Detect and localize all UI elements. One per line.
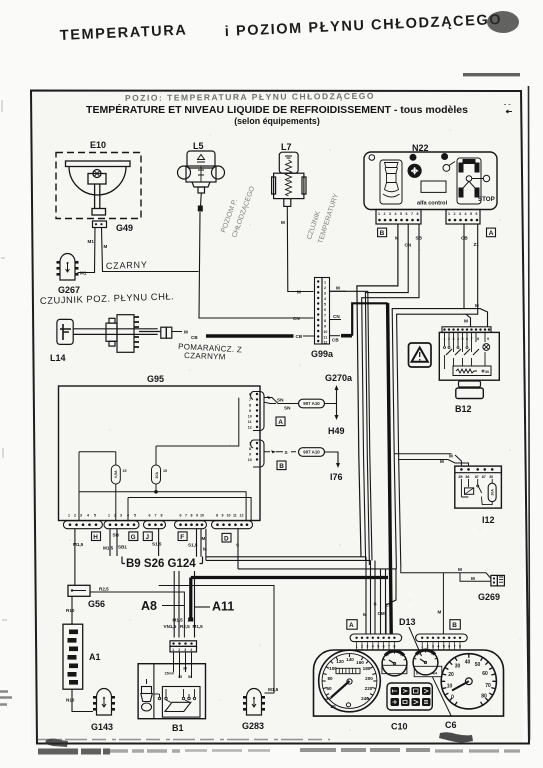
pedestal bbox=[459, 381, 481, 387]
svg-text:140: 140 bbox=[346, 657, 354, 662]
svg-text:4: 4 bbox=[324, 297, 326, 301]
svg-text:C10: C10 bbox=[391, 722, 408, 732]
B1 relay bbox=[138, 664, 205, 719]
svg-text:8: 8 bbox=[324, 319, 326, 323]
svg-text:4: 4 bbox=[190, 648, 192, 652]
svg-text:M: M bbox=[281, 220, 285, 225]
H: M1,5 to G56 bbox=[74, 529, 76, 586]
svg-text:5: 5 bbox=[134, 514, 136, 518]
cluster outer box bbox=[314, 650, 504, 716]
svg-text:9: 9 bbox=[249, 409, 251, 413]
svg-text:85: 85 bbox=[459, 475, 463, 479]
svg-text:3: 3 bbox=[184, 648, 186, 652]
svg-text:G: G bbox=[131, 534, 136, 541]
svg-text:15: 15 bbox=[123, 469, 127, 473]
svg-text:7: 7 bbox=[411, 212, 413, 216]
svg-text:M1,5: M1,5 bbox=[193, 624, 204, 629]
svg-text:9: 9 bbox=[196, 514, 198, 518]
svg-text:8: 8 bbox=[477, 337, 479, 341]
N10 wire A1 to G143 bbox=[72, 689, 93, 711]
svg-text:6: 6 bbox=[180, 514, 182, 518]
svg-text:G99a: G99a bbox=[311, 349, 334, 359]
svg-text:5: 5 bbox=[470, 212, 472, 216]
inner contact box bbox=[162, 687, 200, 718]
svg-text:M1,5: M1,5 bbox=[73, 542, 84, 547]
svg-text:M: M bbox=[184, 330, 188, 335]
I12 feed wires bbox=[394, 454, 461, 466]
svg-text:80: 80 bbox=[481, 694, 487, 700]
svg-text:2: 2 bbox=[384, 212, 386, 216]
screw circle top-left bbox=[369, 155, 375, 161]
boxed A label bbox=[487, 228, 496, 237]
svg-text:10: 10 bbox=[248, 458, 252, 462]
black dots bbox=[410, 154, 416, 160]
svg-text:0,5A: 0,5A bbox=[114, 470, 118, 478]
svg-text:4: 4 bbox=[87, 514, 89, 518]
svg-text:S: S bbox=[374, 602, 377, 607]
svg-text:15: 15 bbox=[163, 469, 167, 473]
svg-text:M: M bbox=[458, 567, 462, 572]
svg-text:M1,5: M1,5 bbox=[268, 687, 279, 692]
svg-text:A11: A11 bbox=[212, 600, 234, 614]
E10 dashed box bbox=[56, 153, 141, 219]
svg-text:0: 0 bbox=[416, 672, 418, 676]
button panel bbox=[387, 683, 432, 710]
svg-text:CB: CB bbox=[191, 335, 198, 340]
svg-text:L7: L7 bbox=[281, 142, 292, 152]
svg-text:7: 7 bbox=[249, 398, 251, 402]
scan edge artifact line right bbox=[529, 86, 530, 740]
svg-text:N10: N10 bbox=[66, 698, 75, 703]
svg-text:2: 2 bbox=[454, 212, 456, 216]
boxed B label bbox=[378, 228, 387, 237]
fuse 907A10 lower bbox=[299, 448, 325, 457]
svg-text:11: 11 bbox=[233, 514, 237, 518]
connector H bbox=[68, 514, 96, 518]
svg-text:30: 30 bbox=[489, 475, 493, 479]
svg-text:CN: CN bbox=[293, 316, 300, 321]
small arrow mark inside frame top right bbox=[506, 110, 512, 113]
svg-text:3: 3 bbox=[324, 292, 326, 296]
wire stubs from L14 bbox=[172, 331, 182, 333]
svg-text:M: M bbox=[336, 286, 340, 291]
contacts bbox=[444, 347, 446, 349]
svg-text:6: 6 bbox=[406, 212, 408, 216]
svg-text:8: 8 bbox=[191, 514, 193, 518]
svg-text:(selon équipements): (selon équipements) bbox=[234, 116, 320, 126]
E10 gauge symbol bbox=[66, 161, 131, 215]
S wire from G95 B pins to fuse bbox=[264, 451, 297, 453]
svg-text:SN: SN bbox=[277, 398, 284, 403]
svg-text:70: 70 bbox=[485, 683, 491, 689]
wires junction to B1 bbox=[174, 652, 192, 678]
pencil dash above frame bbox=[463, 73, 520, 76]
N22 connector B bbox=[376, 210, 421, 225]
M wire N22-B: left at 285.9 then long vertical bbox=[357, 224, 398, 557]
svg-text:SB: SB bbox=[113, 533, 120, 538]
wire M (czarny) from G49 to CN node bbox=[102, 228, 199, 272]
svg-text:B: B bbox=[380, 230, 385, 237]
svg-text:15mV: 15mV bbox=[165, 672, 175, 676]
svg-text:2: 2 bbox=[114, 514, 116, 518]
SN wires from G95 pin to fuse bbox=[264, 398, 300, 404]
svg-text:B: B bbox=[452, 622, 457, 629]
svg-text:10A: 10A bbox=[155, 472, 159, 479]
svg-text:D: D bbox=[224, 535, 229, 542]
thick 30-feed horizontal bbox=[191, 576, 388, 579]
svg-text:8: 8 bbox=[249, 447, 251, 451]
G56 connector bbox=[68, 585, 90, 596]
svg-text:B12: B12 bbox=[455, 404, 472, 414]
R10 wire G56 to A1 bbox=[71, 596, 73, 624]
CB branch to B12 bbox=[464, 309, 488, 327]
svg-text:160: 160 bbox=[356, 660, 364, 665]
svg-text:9: 9 bbox=[487, 337, 489, 341]
svg-text:1: 1 bbox=[448, 212, 450, 216]
svg-text:5: 5 bbox=[324, 303, 326, 307]
speedo numbers bbox=[325, 657, 373, 709]
svg-text:1: 1 bbox=[324, 281, 326, 285]
svg-text:L5: L5 bbox=[193, 141, 204, 151]
svg-text:11: 11 bbox=[323, 336, 327, 340]
small gauge left (temp) bbox=[382, 651, 407, 676]
svg-text:I12: I12 bbox=[482, 515, 495, 525]
svg-text:1: 1 bbox=[108, 514, 110, 518]
G269 feed wires bbox=[401, 567, 491, 579]
svg-text:R2,5: R2,5 bbox=[99, 587, 109, 592]
gauge warning circle bbox=[408, 164, 421, 177]
indicator circle + diagonal bbox=[443, 165, 450, 172]
svg-text:1: 1 bbox=[172, 648, 174, 652]
svg-text:M: M bbox=[297, 290, 301, 295]
svg-text:0: 0 bbox=[451, 695, 454, 701]
svg-text:15: 15 bbox=[178, 675, 182, 679]
svg-text:8: 8 bbox=[216, 514, 218, 518]
B9 S26 G124 labels bbox=[122, 557, 203, 564]
pencil scribble near L5 bbox=[220, 185, 256, 239]
svg-text:87: 87 bbox=[475, 475, 479, 479]
pin numbers bbox=[444, 337, 490, 341]
svg-text:50: 50 bbox=[188, 675, 192, 679]
svg-text:I76: I76 bbox=[330, 472, 343, 482]
svg-text:9: 9 bbox=[324, 325, 326, 329]
wire down from G269 junction to cluster B bbox=[442, 573, 444, 634]
wires down to junction bbox=[174, 571, 194, 638]
speedometer bbox=[319, 650, 381, 712]
svg-text:alfa control: alfa control bbox=[417, 201, 448, 207]
handwritten page title bbox=[59, 12, 502, 44]
svg-text:D13: D13 bbox=[399, 617, 416, 627]
svg-text:1: 1 bbox=[68, 514, 70, 518]
svg-text:R2,5: R2,5 bbox=[180, 624, 190, 629]
svg-text:A: A bbox=[278, 419, 283, 426]
svg-text:40: 40 bbox=[465, 660, 471, 666]
svg-text:1: 1 bbox=[378, 212, 380, 216]
svg-text:20: 20 bbox=[330, 704, 336, 709]
J: S1,5 drop bbox=[158, 529, 160, 556]
svg-text:CN: CN bbox=[333, 314, 340, 319]
svg-text:G95: G95 bbox=[147, 374, 164, 384]
connector G bbox=[108, 514, 136, 518]
svg-text:220: 220 bbox=[365, 686, 373, 691]
svg-text:12: 12 bbox=[248, 426, 252, 430]
connector F bbox=[180, 514, 205, 518]
lamp symbol bbox=[483, 344, 490, 351]
svg-text:A: A bbox=[489, 230, 494, 237]
svg-text:8: 8 bbox=[417, 212, 419, 216]
svg-text:A: A bbox=[349, 622, 354, 629]
svg-text:30: 30 bbox=[485, 370, 489, 374]
svg-text:10: 10 bbox=[323, 330, 327, 334]
svg-text:40: 40 bbox=[325, 696, 331, 701]
D wires: S bbox=[237, 529, 239, 569]
relay armature parallelogram bbox=[165, 702, 191, 711]
svg-text:9: 9 bbox=[249, 453, 251, 457]
wire M1 from G49 to G267 bbox=[78, 228, 96, 273]
bottom inner box with resistor bbox=[453, 366, 491, 376]
svg-text:120: 120 bbox=[336, 659, 344, 664]
connector D bbox=[216, 514, 244, 518]
G99a right side stubs bbox=[330, 290, 347, 292]
Z1 wire N22-A down-left-down bbox=[397, 224, 478, 567]
left margin noise bbox=[1, 100, 7, 620]
svg-text:7: 7 bbox=[155, 514, 157, 518]
svg-text:7: 7 bbox=[324, 314, 326, 318]
svg-text:Z1: Z1 bbox=[474, 242, 480, 247]
svg-text:12: 12 bbox=[240, 514, 244, 518]
svg-text:M: M bbox=[104, 244, 108, 249]
svg-text:CN: CN bbox=[386, 603, 393, 608]
svg-text:S: S bbox=[236, 543, 239, 548]
svg-text:200: 200 bbox=[365, 676, 373, 681]
svg-text:E10: E10 bbox=[90, 140, 106, 150]
svg-text:G143: G143 bbox=[91, 722, 113, 732]
svg-text:2: 2 bbox=[74, 514, 76, 518]
faint scan tone bbox=[31, 90, 523, 744]
svg-text:5: 5 bbox=[400, 212, 402, 216]
horn symbol bbox=[142, 687, 152, 694]
svg-text:3: 3 bbox=[80, 514, 82, 518]
svg-text:SN: SN bbox=[284, 406, 291, 411]
svg-text:4/4: 4/4 bbox=[432, 672, 437, 676]
wire from L5 down (CN net) bbox=[199, 193, 314, 318]
wire from L7 down to G99a M bbox=[287, 206, 313, 291]
svg-text:60: 60 bbox=[482, 671, 488, 677]
G143 bulb holder bbox=[93, 689, 115, 716]
svg-text:2: 2 bbox=[178, 648, 180, 652]
G49 connector bbox=[93, 221, 134, 233]
svg-text:CM: CM bbox=[378, 611, 385, 616]
svg-text:S1,5: S1,5 bbox=[152, 542, 162, 547]
junction block bbox=[170, 641, 197, 652]
fuse oval bbox=[488, 483, 496, 501]
svg-text:3: 3 bbox=[459, 212, 461, 216]
left car top/front view bbox=[380, 160, 402, 204]
C6 leader bbox=[432, 677, 451, 716]
svg-text:7: 7 bbox=[185, 514, 187, 518]
svg-text:M1,5: M1,5 bbox=[103, 546, 114, 551]
frame border bbox=[31, 91, 529, 744]
svg-text:30: 30 bbox=[183, 667, 187, 671]
svg-text:A1: A1 bbox=[89, 652, 101, 662]
svg-text:86: 86 bbox=[466, 475, 470, 479]
cluster connector B bbox=[450, 620, 460, 630]
svg-text:VN1,5: VN1,5 bbox=[164, 624, 177, 629]
svg-text:50: 50 bbox=[475, 662, 481, 668]
svg-text:100: 100 bbox=[329, 666, 337, 671]
svg-text:M: M bbox=[438, 610, 442, 615]
svg-text:C6: C6 bbox=[445, 720, 457, 730]
svg-text:6: 6 bbox=[149, 514, 151, 518]
svg-text:H: H bbox=[93, 534, 98, 541]
svg-text:6: 6 bbox=[476, 212, 478, 216]
svg-text:L14: L14 bbox=[50, 353, 66, 363]
svg-text:G56: G56 bbox=[88, 599, 105, 609]
svg-text:M: M bbox=[449, 454, 453, 459]
svg-text:J: J bbox=[146, 534, 150, 541]
svg-text:4: 4 bbox=[465, 212, 467, 216]
svg-text:M: M bbox=[440, 459, 444, 464]
G: M1,5 / SB / SB1 short drops bbox=[110, 529, 117, 556]
svg-text:F: F bbox=[180, 534, 184, 541]
tachometer bbox=[441, 654, 496, 709]
svg-text:CZARNYM: CZARNYM bbox=[184, 351, 226, 361]
svg-text:B9 S26 G124: B9 S26 G124 bbox=[126, 558, 196, 570]
svg-text:8: 8 bbox=[161, 514, 163, 518]
cross-page horizontals from G95 to right bundle bbox=[206, 556, 366, 558]
svg-text:CB: CB bbox=[332, 338, 339, 343]
svg-text:3: 3 bbox=[120, 514, 122, 518]
svg-text:10: 10 bbox=[447, 684, 453, 690]
svg-text:G283: G283 bbox=[242, 721, 264, 731]
CN wire N22-B down-left-down bbox=[365, 224, 408, 565]
svg-text:10: 10 bbox=[227, 514, 231, 518]
svg-text:10A: 10A bbox=[491, 489, 495, 496]
svg-text:G49: G49 bbox=[116, 223, 133, 233]
G99a M stub jog down bbox=[330, 291, 373, 560]
svg-text:20: 20 bbox=[448, 672, 454, 678]
svg-text:G269: G269 bbox=[478, 592, 500, 602]
svg-text:M: M bbox=[202, 536, 206, 541]
svg-text:6: 6 bbox=[324, 308, 326, 312]
pin stubs bbox=[445, 332, 486, 352]
svg-text:M1,5: M1,5 bbox=[173, 618, 184, 623]
svg-text:3: 3 bbox=[389, 212, 391, 216]
ink smudge top right bbox=[487, 11, 519, 33]
svg-text:10: 10 bbox=[200, 514, 204, 518]
svg-text:M1: M1 bbox=[88, 239, 95, 244]
arrow up to G270a and down to H49 bbox=[336, 388, 338, 417]
svg-text:STOP: STOP bbox=[478, 196, 495, 203]
svg-text:M: M bbox=[464, 319, 468, 324]
small gauge right (fuel) bbox=[413, 650, 442, 677]
connector J bbox=[149, 514, 163, 518]
svg-text:CZARNY: CZARNY bbox=[106, 260, 148, 271]
A1 battery/fuse strip bbox=[63, 624, 83, 689]
Z1 branch to B12 bbox=[466, 314, 471, 327]
display rectangle bbox=[421, 181, 446, 192]
F wires: S1,5 + M,M bbox=[197, 529, 206, 561]
svg-text:M: M bbox=[471, 576, 475, 581]
svg-text:11: 11 bbox=[248, 420, 252, 424]
svg-text:M: M bbox=[363, 612, 367, 617]
R2,5 wire from G56 to junction bbox=[90, 592, 184, 638]
svg-text:9: 9 bbox=[222, 514, 224, 518]
svg-text:M: M bbox=[203, 547, 207, 552]
cluster connector A bbox=[347, 620, 357, 630]
thick CB branch from G99a via 303.3 to D13 bbox=[352, 303, 387, 335]
pencil scribble near L7 bbox=[306, 192, 340, 244]
svg-text:Z1: Z1 bbox=[188, 618, 194, 623]
thick CB wire to G99a bbox=[206, 334, 294, 338]
G95 right connector A pins bbox=[248, 393, 252, 430]
CB wire N22-A down-left-down bbox=[392, 224, 464, 569]
svg-text:87: 87 bbox=[482, 475, 486, 479]
relay internals bbox=[461, 479, 468, 497]
svg-text:G270a: G270a bbox=[325, 373, 353, 383]
N22 connector A bbox=[446, 210, 480, 225]
svg-text:B1: B1 bbox=[172, 723, 184, 733]
svg-text:80: 80 bbox=[327, 676, 333, 681]
svg-text:5: 5 bbox=[94, 514, 96, 518]
svg-text:240: 240 bbox=[361, 696, 369, 701]
svg-text:TEMPÉRATURE ET NIVEAU LIQUIDE: TEMPÉRATURE ET NIVEAU LIQUIDE DE REFROID… bbox=[86, 103, 468, 116]
svg-text:8: 8 bbox=[249, 404, 251, 408]
svg-text:12: 12 bbox=[323, 341, 327, 345]
svg-text:B: B bbox=[279, 463, 284, 470]
svg-text:S: S bbox=[285, 450, 288, 455]
svg-text:M: M bbox=[475, 303, 479, 308]
svg-text:4: 4 bbox=[127, 514, 129, 518]
svg-text:CB: CB bbox=[296, 334, 303, 339]
fuse 907A10 upper bbox=[299, 399, 325, 408]
svg-text:60: 60 bbox=[326, 686, 332, 691]
G267 bulb holder bbox=[57, 254, 79, 281]
svg-text:S1,5: S1,5 bbox=[188, 543, 198, 548]
svg-text:180: 180 bbox=[363, 666, 371, 671]
svg-text:H49: H49 bbox=[328, 426, 345, 436]
svg-text:4: 4 bbox=[395, 212, 397, 216]
right car top view bbox=[457, 158, 481, 204]
svg-text:CB: CB bbox=[461, 236, 468, 241]
svg-text:2: 2 bbox=[324, 286, 326, 290]
G95 internal wiring bbox=[79, 398, 251, 521]
G95 right connector B pins bbox=[248, 442, 252, 463]
needle bbox=[331, 681, 350, 698]
svg-text:A8: A8 bbox=[141, 599, 157, 613]
thin horizontal to G283 drop bbox=[159, 586, 274, 694]
odometer bbox=[336, 668, 360, 673]
svg-text:M1: M1 bbox=[80, 271, 87, 276]
SB wire N22-B down-left-down bbox=[362, 224, 419, 560]
svg-text:R10: R10 bbox=[66, 608, 75, 613]
svg-text:30: 30 bbox=[455, 664, 461, 670]
cluster A feed drops bbox=[366, 557, 381, 634]
svg-text:10: 10 bbox=[248, 415, 252, 419]
svg-text:SB1: SB1 bbox=[118, 545, 127, 550]
